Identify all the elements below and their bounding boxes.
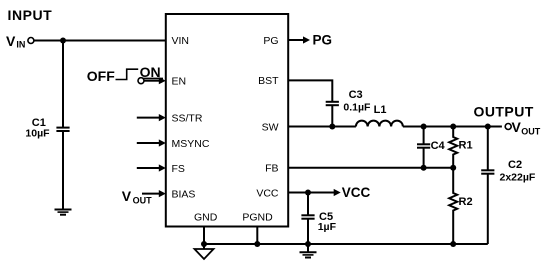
ground C5 (300, 244, 317, 258)
pin label FB (265, 163, 278, 175)
svg-text:PG: PG (313, 33, 333, 48)
node input junction (60, 38, 66, 44)
label VIN input (6, 33, 25, 50)
svg-text:OFF: OFF (87, 68, 115, 84)
svg-text:IN: IN (16, 40, 25, 50)
node FB-R1-R2 junction (450, 165, 456, 171)
label C1 (32, 117, 46, 129)
svg-text:SW: SW (262, 122, 279, 134)
resistor R1 (449, 127, 457, 168)
terminal VOUT (505, 124, 511, 130)
ground C1 (55, 210, 72, 215)
label VCC output (342, 185, 371, 200)
capacitor C2 (481, 127, 494, 245)
svg-text:GND: GND (194, 212, 218, 224)
pin label PG (263, 35, 278, 47)
wire ground bus (204, 243, 488, 245)
wire BST to C3 (288, 80, 332, 101)
wire PG arrow (288, 36, 310, 43)
svg-text:R2: R2 (459, 196, 473, 208)
resistor R2 (449, 168, 457, 244)
pin label SW (262, 122, 279, 134)
svg-text:EN: EN (172, 76, 187, 88)
underline ON (140, 77, 164, 79)
pin label MSYNC (172, 138, 210, 150)
node FB-C4 junction (421, 165, 427, 171)
wire VCC line (288, 192, 308, 194)
svg-text:0.1µF: 0.1µF (343, 101, 371, 113)
pin label VIN (172, 35, 190, 47)
svg-text:BIAS: BIAS (172, 189, 196, 201)
capacitor C5 (301, 215, 314, 218)
label C4 (431, 140, 446, 152)
node output-C4 junction (421, 124, 427, 130)
pin label VCC (256, 188, 279, 200)
wire GND pin (203, 227, 205, 245)
label VOUT output (512, 119, 541, 136)
svg-text:VCC: VCC (342, 185, 371, 200)
label INPUT (8, 7, 53, 23)
label C2 (508, 159, 522, 171)
node PGND junction (254, 241, 260, 247)
label R1 (459, 140, 473, 152)
wire EN arrow (144, 77, 166, 84)
svg-text:C4: C4 (431, 140, 446, 152)
svg-text:OUT: OUT (133, 196, 153, 206)
svg-text:FS: FS (172, 163, 185, 175)
svg-text:OUTPUT: OUTPUT (474, 103, 534, 119)
label L1 (374, 104, 387, 116)
pin label EN (172, 76, 187, 88)
label 10uF (25, 128, 50, 140)
svg-text:BST: BST (258, 75, 279, 87)
wire C1 to ground (62, 131, 64, 209)
svg-text:V: V (122, 188, 132, 204)
svg-text:PGND: PGND (242, 212, 273, 224)
wire C5 upper (307, 193, 309, 216)
wire C4 upper (423, 127, 425, 145)
label 1uF (318, 221, 337, 233)
label R2 (459, 196, 473, 208)
wire C4 lower (423, 148, 425, 168)
terminal EN (138, 78, 144, 84)
svg-text:V: V (512, 119, 522, 135)
wire L1 to output terminal (403, 126, 502, 128)
capacitor C4 (417, 144, 430, 147)
node GND junction (201, 241, 207, 247)
switch step symbol (116, 69, 139, 79)
svg-text:INPUT: INPUT (8, 7, 53, 23)
svg-text:VCC: VCC (256, 188, 279, 200)
wire SW to L1 (288, 126, 356, 128)
capacitor C3 (326, 102, 339, 105)
node C5 ground junction (305, 241, 311, 247)
label C5 (319, 211, 333, 223)
svg-text:1µF: 1µF (318, 221, 337, 233)
wire PGND pin (256, 227, 258, 245)
svg-text:L1: L1 (374, 104, 387, 116)
node output-R1 junction (450, 124, 456, 130)
wire MSYNC arrow (137, 139, 166, 146)
svg-text:SS/TR: SS/TR (172, 113, 203, 125)
svg-text:2x22µF: 2x22µF (500, 171, 536, 183)
pin label BIAS (172, 189, 196, 201)
wire FS arrow (137, 164, 166, 171)
label 2x22uF (500, 171, 536, 183)
pin label BST (258, 75, 279, 87)
label OFF (87, 68, 115, 84)
inductor L1 (356, 121, 403, 127)
svg-text:10µF: 10µF (25, 128, 50, 140)
node SW-C3 junction (329, 124, 335, 130)
svg-text:V: V (6, 33, 16, 49)
label PG output (313, 33, 333, 48)
wire VCC arrow (308, 189, 341, 196)
label C3 (349, 89, 363, 101)
node VCC-C5 junction (305, 190, 311, 196)
svg-text:C2: C2 (508, 159, 522, 171)
svg-text:VIN: VIN (172, 35, 190, 47)
svg-text:MSYNC: MSYNC (172, 138, 210, 150)
wire FB line (288, 167, 453, 169)
svg-text:R1: R1 (459, 140, 473, 152)
ground triangle at GND (195, 244, 214, 259)
svg-text:C3: C3 (349, 89, 363, 101)
svg-text:FB: FB (265, 163, 278, 175)
pin label SS/TR (172, 113, 203, 125)
svg-text:PG: PG (263, 35, 278, 47)
label ON (140, 64, 161, 80)
capacitor C1 (56, 128, 69, 131)
wire BIAS arrow (142, 190, 166, 197)
pin label FS (172, 163, 185, 175)
pin label PGND (242, 212, 273, 224)
wire C3 to SW node (331, 105, 333, 126)
node output-C2 junction (485, 124, 491, 130)
wire C5 lower (307, 219, 309, 244)
pin label GND (194, 212, 218, 224)
wire input node to C1 (62, 41, 64, 128)
label VOUT at BIAS (122, 188, 152, 206)
label OUTPUT (474, 103, 534, 119)
wire SS/TR arrow (137, 114, 166, 121)
label 0.1uF (343, 101, 371, 113)
svg-text:OUT: OUT (521, 126, 541, 136)
terminal VIN (28, 38, 34, 44)
node R2 ground junction (450, 241, 456, 247)
op-amp U1 IC body (166, 14, 288, 227)
wire VIN input to pin VIN (34, 40, 166, 42)
